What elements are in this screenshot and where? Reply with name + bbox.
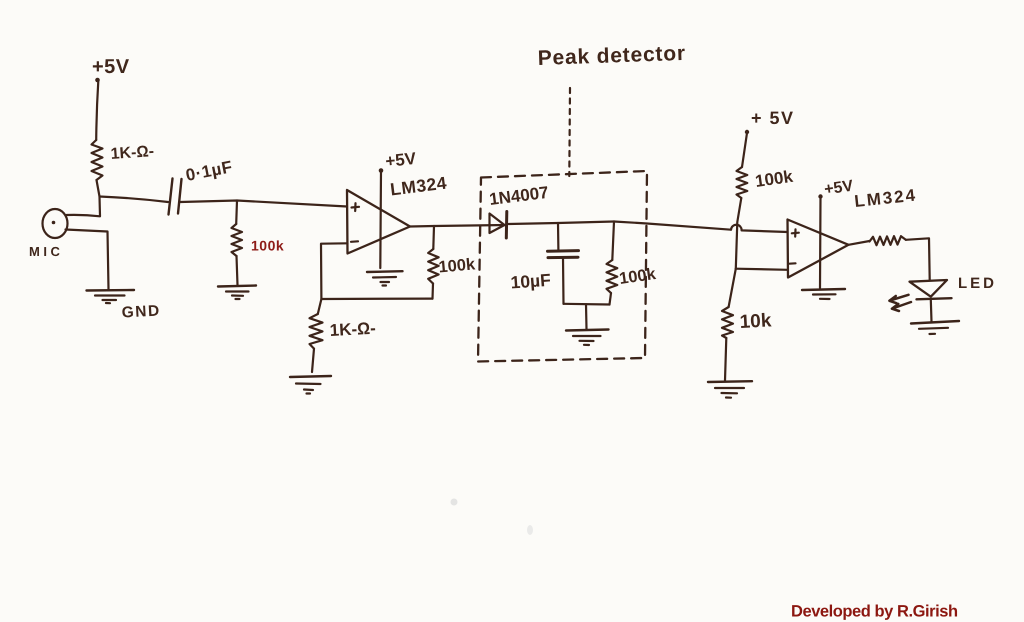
- capacitor C2: [548, 251, 579, 258]
- wire R6 down through crossover to minus node: [736, 198, 742, 269]
- wire R3 to feedback line: [431, 284, 434, 299]
- dashed box (peak detector): [478, 171, 647, 362]
- resistor R4: [310, 314, 323, 349]
- svg-text:GND: GND: [121, 302, 161, 321]
- wire R4 to ground: [312, 349, 314, 372]
- svg-text:1K-Ω-: 1K-Ω-: [110, 143, 154, 163]
- ground (R7): [708, 381, 752, 398]
- wire node to C2: [557, 223, 560, 251]
- wire C1 to U1 + input: [181, 201, 348, 207]
- capacitor C1: [169, 179, 182, 215]
- resistor R6: [737, 167, 748, 198]
- svg-text:10k: 10k: [739, 310, 772, 333]
- wire LED cathode to ground: [930, 300, 933, 322]
- wire R5 to bottom rail: [610, 293, 612, 305]
- wire node to C1: [100, 197, 169, 203]
- node +5V supply (right): [745, 108, 795, 134]
- svg-text:100k: 100k: [251, 238, 284, 254]
- svg-text:1K-Ω-: 1K-Ω-: [329, 319, 376, 340]
- wire feedback line to U1 minus node: [321, 243, 433, 299]
- resistor R3: [428, 249, 438, 284]
- wire U2 power rail through body to ground: [819, 197, 822, 288]
- wire +5V to R1: [96, 81, 98, 140]
- ground (U1 power): [367, 271, 403, 285]
- resistor R7: [722, 307, 733, 338]
- op-amp U1: [347, 190, 410, 254]
- svg-text:+5V: +5V: [384, 149, 417, 171]
- wire output node to R3: [432, 226, 435, 249]
- ground (R4): [290, 376, 331, 394]
- ground (mic): [87, 290, 135, 303]
- diode D1 1N4007: [490, 212, 507, 239]
- wire R8 to LED: [906, 238, 930, 279]
- faint pencil smudge 1: [451, 499, 458, 506]
- svg-text:10µF: 10µF: [510, 270, 552, 293]
- resistor R5: [607, 260, 618, 293]
- microphone MIC: [43, 209, 68, 238]
- wire mic top terminal to node: [67, 215, 101, 216]
- wire D1 cathode to node: [509, 222, 615, 225]
- wire U1 output to diode anode: [410, 225, 506, 227]
- U1 plus input symbol: [352, 203, 360, 211]
- wire node to R5: [612, 222, 614, 261]
- wire divider node to U2 minus input: [736, 269, 788, 270]
- wire bottom rail to ground: [585, 304, 588, 329]
- resistor R1: [92, 140, 103, 180]
- ground (U2 power): [802, 289, 845, 299]
- wire divider node to R7: [729, 269, 736, 307]
- wire R1 to mic node: [97, 180, 101, 216]
- svg-text:100k: 100k: [438, 255, 477, 276]
- wire U2 output to R8: [849, 241, 870, 245]
- U1 minus input symbol: [351, 240, 358, 243]
- wire R2 to ground: [237, 256, 238, 285]
- LED emission arrows: [889, 295, 911, 311]
- wire +5V to R6: [742, 133, 747, 167]
- wire C2 to bottom rail: [562, 258, 565, 304]
- op-amp U2: [788, 220, 849, 278]
- U2 plus input symbol: [792, 229, 799, 236]
- svg-text:LED: LED: [958, 275, 997, 292]
- ground (R2): [218, 286, 256, 300]
- svg-text:MIC: MIC: [29, 244, 63, 259]
- wire crossover hump to U2 plus input: [731, 225, 788, 232]
- U1 +5V pin dot: [379, 168, 384, 173]
- U2 +5V pin dot: [818, 194, 822, 198]
- svg-text:+ 5V: + 5V: [751, 108, 795, 128]
- svg-text:+5V: +5V: [92, 56, 130, 78]
- wire bottom rail C2 to R5: [564, 303, 610, 306]
- wire peak detector output to right section: [614, 222, 731, 230]
- LED D2: [910, 280, 952, 299]
- ground (LED): [911, 321, 959, 334]
- resistor R8 (series LED resistor): [870, 236, 906, 245]
- wire node to R2: [235, 201, 238, 225]
- wire U1 power rail through body to ground: [379, 171, 382, 268]
- wire R7 to ground: [725, 338, 726, 381]
- dashed leader line from label to box: [568, 88, 571, 176]
- node +5V supply (left): [92, 56, 130, 82]
- resistor R2: [232, 224, 243, 256]
- ground (peak detector): [566, 330, 609, 346]
- wire feedback node to R4: [318, 299, 322, 314]
- wire mic bottom terminal to ground: [66, 230, 109, 290]
- U2 minus input symbol: [790, 262, 796, 265]
- faint pencil smudge 2: [527, 525, 533, 535]
- svg-text:Developed by R.Girish: Developed by R.Girish: [791, 603, 958, 621]
